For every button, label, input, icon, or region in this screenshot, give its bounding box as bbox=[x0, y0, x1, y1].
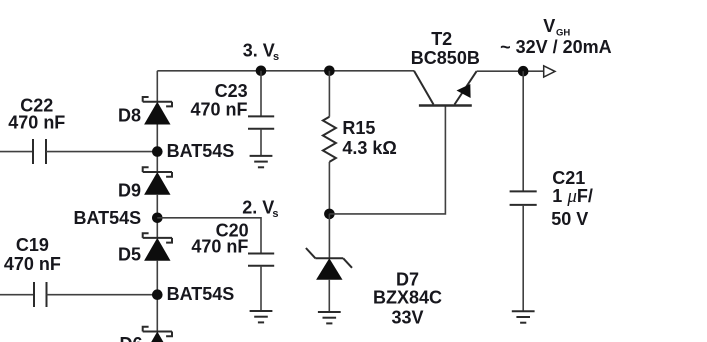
wire C22 to node A bbox=[46, 151, 157, 153]
wire C20 to ground bbox=[260, 266, 262, 311]
wire D9 to D5 bbox=[156, 195, 158, 238]
wire node to R15 bbox=[328, 71, 330, 117]
wire left input to C19 bbox=[0, 294, 34, 296]
svg-text:4.3 kΩ: 4.3 kΩ bbox=[342, 138, 396, 158]
diode D9 BAT54S bbox=[143, 167, 172, 195]
svg-text:D6: D6 bbox=[120, 334, 143, 342]
label node 3.Vs bbox=[243, 41, 279, 64]
svg-text:50 V: 50 V bbox=[551, 209, 588, 229]
diode D8 BAT54S bbox=[143, 97, 172, 125]
svg-text:~ 32V / 20mA: ~ 32V / 20mA bbox=[500, 37, 612, 57]
node A junction bbox=[152, 146, 163, 157]
svg-text:BZX84C: BZX84C bbox=[373, 288, 442, 308]
svg-text:BAT54S: BAT54S bbox=[167, 141, 235, 161]
svg-text:470 nF: 470 nF bbox=[190, 99, 247, 119]
wire D8 to D9 bbox=[156, 125, 158, 173]
label VGH bbox=[543, 16, 570, 39]
wire top rail left bbox=[157, 70, 414, 72]
svg-text:33V: 33V bbox=[391, 307, 423, 327]
svg-text:3. V: 3. V bbox=[243, 41, 275, 61]
svg-text:470 nF: 470 nF bbox=[191, 237, 248, 257]
label C20 value bbox=[191, 220, 248, 256]
node E junction output bbox=[518, 66, 529, 77]
transistor T2 bbox=[414, 71, 477, 106]
wire C19 to node C bbox=[47, 294, 158, 296]
label D7 value bbox=[373, 270, 442, 328]
wire C21 to ground bbox=[522, 205, 524, 311]
wire emitter to output bbox=[477, 70, 544, 72]
wire D5 to D6 bbox=[156, 261, 158, 332]
wire node D to D7 bbox=[328, 214, 330, 258]
ground for C23 bbox=[250, 156, 273, 167]
diode D6 BAT54S bbox=[143, 327, 172, 342]
ground for C21 bbox=[512, 311, 535, 322]
wire node B to C20 bbox=[157, 218, 261, 254]
svg-text:470 nF: 470 nF bbox=[4, 254, 61, 274]
wire node to C23 bbox=[260, 71, 262, 117]
wire chain top segment bbox=[156, 71, 158, 102]
svg-text:2. V: 2. V bbox=[242, 197, 274, 217]
svg-text:BAT54S: BAT54S bbox=[167, 284, 235, 304]
svg-text:BC850B: BC850B bbox=[411, 48, 480, 68]
label R15 value bbox=[342, 118, 396, 158]
node junction top rail C23 bbox=[256, 66, 267, 77]
output arrow VGH bbox=[544, 66, 555, 77]
node B junction 2.Vs bbox=[152, 213, 163, 224]
svg-text:D7: D7 bbox=[396, 270, 419, 290]
svg-text:R15: R15 bbox=[342, 118, 375, 138]
capacitor C19 bbox=[34, 282, 47, 307]
svg-text:s: s bbox=[272, 208, 278, 220]
svg-text:1 μF/: 1 μF/ bbox=[552, 186, 593, 207]
node junction top rail R15 bbox=[324, 66, 335, 77]
wire R15 to node D bbox=[328, 162, 330, 214]
wire base of T2 bbox=[329, 106, 445, 214]
wire node E to C21 bbox=[522, 71, 524, 191]
svg-text:V: V bbox=[543, 16, 555, 36]
svg-text:C23: C23 bbox=[215, 81, 248, 101]
wire D7 to ground bbox=[328, 280, 330, 312]
resistor R15 bbox=[323, 117, 336, 162]
node D junction bbox=[324, 209, 335, 220]
svg-text:s: s bbox=[273, 51, 279, 63]
label C21 value bbox=[551, 168, 593, 229]
label C22 value bbox=[8, 95, 65, 132]
ground for D7 bbox=[318, 312, 341, 323]
svg-text:D8: D8 bbox=[118, 106, 141, 126]
node C junction bbox=[152, 289, 163, 300]
svg-text:C19: C19 bbox=[16, 235, 49, 255]
svg-text:D9: D9 bbox=[118, 180, 141, 200]
zener diode D7 bbox=[306, 248, 352, 280]
svg-text:BAT54S: BAT54S bbox=[74, 208, 142, 228]
svg-text:470 nF: 470 nF bbox=[8, 112, 65, 132]
label C19 value bbox=[4, 235, 61, 274]
wire C23 to ground bbox=[260, 129, 262, 156]
label C23 value bbox=[190, 81, 247, 119]
wire left input to C22 bbox=[0, 151, 33, 153]
capacitor C21 bbox=[510, 191, 537, 205]
diode D5 BAT54S bbox=[143, 233, 172, 261]
label node 2.Vs bbox=[242, 197, 278, 220]
capacitor C20 bbox=[248, 254, 274, 266]
svg-text:T2: T2 bbox=[431, 29, 452, 49]
label T2 bbox=[411, 29, 480, 68]
svg-text:D5: D5 bbox=[118, 245, 141, 265]
capacitor C22 bbox=[33, 139, 46, 164]
capacitor C23 bbox=[248, 116, 274, 128]
svg-text:C21: C21 bbox=[552, 168, 585, 188]
ground for C20 bbox=[250, 311, 273, 322]
